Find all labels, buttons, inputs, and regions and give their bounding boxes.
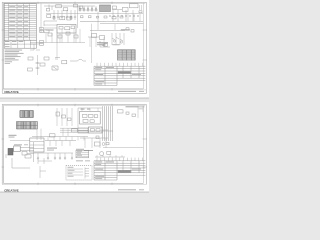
- svg-text:CREATIVE: CREATIVE: [4, 188, 19, 192]
- svg-text:CREATIVE: CREATIVE: [4, 90, 19, 94]
